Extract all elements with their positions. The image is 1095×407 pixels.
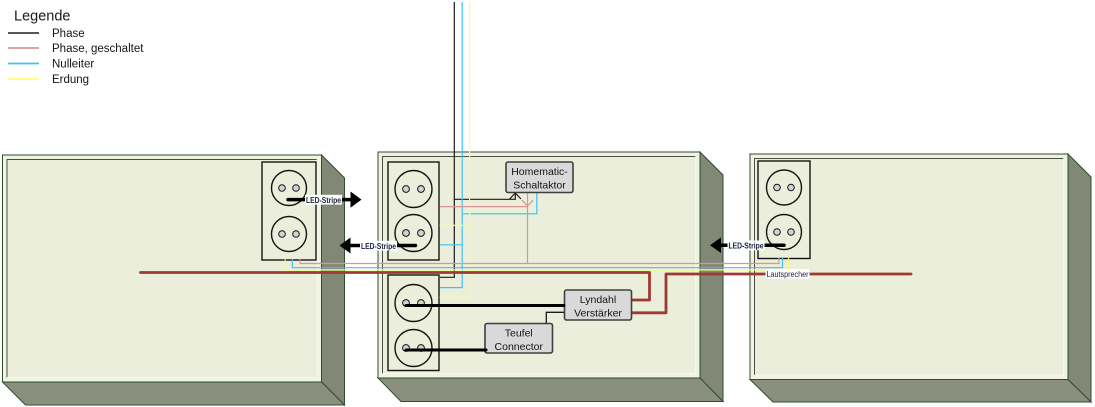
svg-text:LED-Stripe: LED-Stripe — [729, 242, 764, 251]
enclosure left: 3D box — [3, 155, 345, 405]
wire nulleiter left box drop — [291, 260, 293, 268]
legend swatch Phase — [8, 32, 39, 34]
wire erdung stub to middle upper panel — [440, 224, 470, 226]
svg-text:Schaltaktor: Schaltaktor — [513, 180, 566, 192]
svg-text:Homematic-: Homematic- — [511, 166, 568, 178]
wire lautsprecher right run (dark red) Lyndahl to right box — [632, 274, 911, 313]
svg-text:Phase, geschaltet: Phase, geschaltet — [52, 43, 144, 55]
LED strip arrow 3: right box socket to left — [710, 237, 784, 253]
wire geschaltet bundle run left box to right box — [300, 258, 779, 264]
socket panel left box — [262, 162, 316, 260]
LED strip arrow 1: left box socket to right — [288, 192, 362, 208]
wire Teufel to Lyndahl (thin black) — [546, 312, 564, 323]
wire speaker socket to Teufel (thick black) — [406, 349, 486, 352]
svg-text:Teufel: Teufel — [505, 328, 533, 340]
wire nulleiter (cyan) from supply down into middle box, to lower panel — [440, 2, 463, 288]
component box Teufel Connector — [485, 324, 553, 354]
wire nulleiter stub to middle upper panel — [440, 244, 463, 246]
component box Homematic-Schaltaktor — [506, 162, 573, 193]
socket panel right box — [758, 161, 810, 259]
legend swatch Phase, geschaltet — [8, 47, 39, 49]
legend swatch Erdung — [8, 78, 39, 80]
svg-text:Phase: Phase — [52, 28, 85, 40]
wire erdung bundle run left box to right box — [285, 258, 788, 270]
wire phase (black) from supply down into middle box, to lower panel — [440, 2, 454, 277]
wire phase branch to Homematic-Schaltaktor — [454, 194, 515, 200]
legend swatch Nulleiter — [8, 63, 39, 65]
wire phase geschaltet from middle upper panel to Homematic drop — [440, 206, 528, 208]
svg-text:Erdung: Erdung — [52, 74, 89, 86]
wire nulleiter bundle run left box to right box — [292, 258, 782, 268]
wire erdung left box drop — [284, 260, 286, 270]
wire erdung (yellow) from supply down into middle box, to lower panel — [440, 2, 470, 298]
svg-text:Lyndahl: Lyndahl — [580, 294, 616, 306]
wire nulleiter branch to Homematic-Schaltaktor — [462, 193, 537, 214]
enclosure middle: 3D box — [378, 152, 723, 402]
svg-text:Verstärker: Verstärker — [574, 308, 622, 320]
wire speaker socket to Lyndahl (thick black) — [406, 304, 564, 307]
wire geschaltet left box drop — [299, 260, 301, 264]
svg-text:Lautsprecher: Lautsprecher — [767, 270, 809, 279]
socket panel middle box lower — [388, 275, 439, 371]
component box Lyndahl Verstaerker — [565, 290, 632, 320]
wire lautsprecher left run (dark red) left box to Lyndahl — [141, 273, 650, 301]
svg-text:Nulleiter: Nulleiter — [52, 59, 94, 71]
enclosure right: 3D box — [750, 154, 1091, 402]
svg-text:LED-Stripe: LED-Stripe — [306, 196, 341, 205]
label Lautsprecher — [766, 269, 810, 279]
socket panel middle box upper — [388, 162, 439, 260]
svg-text:Legende: Legende — [14, 9, 70, 25]
svg-text:Connector: Connector — [495, 341, 544, 353]
svg-text:LED-Stripe: LED-Stripe — [361, 242, 396, 251]
LED strip arrow 2: middle box socket to left — [340, 238, 416, 254]
arrowhead phase into Homematic — [510, 193, 521, 199]
arrowhead geschaltet down — [522, 200, 533, 206]
wire phase geschaltet drop from Homematic to bundle — [527, 193, 529, 264]
